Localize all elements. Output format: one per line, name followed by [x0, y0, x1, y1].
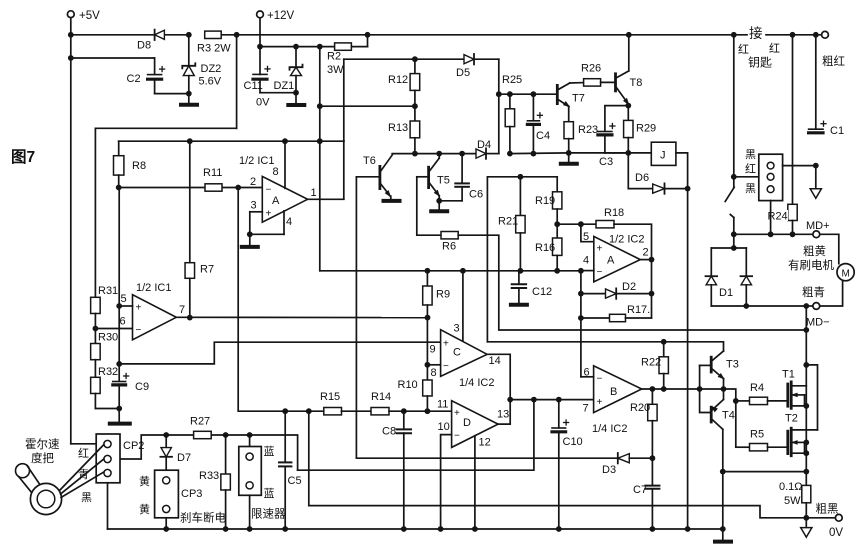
svg-text:2: 2 — [643, 247, 649, 259]
wire D output feedback drop — [298, 400, 534, 471]
connector CP1 — [759, 154, 783, 200]
op-amp U2A (1/2 IC2) — [583, 231, 649, 282]
wire R26 to T8 base — [601, 81, 616, 83]
terminal MD+ — [806, 220, 830, 238]
diode D6 — [628, 153, 690, 194]
svg-text:R27: R27 — [190, 416, 210, 428]
terminal MD- — [806, 303, 830, 329]
wire T3 collector feed — [487, 342, 723, 351]
svg-text:C12: C12 — [532, 286, 552, 298]
capacitor C5 — [279, 411, 302, 529]
svg-text:T7: T7 — [572, 93, 585, 105]
wire mid ground bus — [320, 268, 584, 274]
svg-text:7: 7 — [179, 304, 185, 316]
svg-text:12: 12 — [479, 437, 491, 449]
wire R18 feedback — [614, 224, 654, 318]
svg-text:粗青: 粗青 — [802, 286, 825, 299]
svg-text:黄: 黄 — [139, 502, 150, 516]
ground IC1A — [242, 234, 258, 247]
svg-text:0V: 0V — [829, 527, 843, 539]
op-amp U1B (1/2 IC1) — [120, 282, 186, 340]
svg-text:C: C — [453, 347, 461, 359]
wire drive top line — [344, 56, 464, 62]
wire op-amp A output — [308, 198, 344, 200]
svg-text:刹车断电: 刹车断电 — [180, 511, 226, 525]
wire R3 output jog — [95, 35, 236, 298]
svg-text:R25: R25 — [502, 74, 522, 86]
transistor T4 — [709, 399, 735, 429]
svg-text:9: 9 — [430, 344, 436, 356]
terminal +12V — [257, 10, 295, 22]
svg-text:MD+: MD+ — [806, 220, 830, 232]
svg-text:R21: R21 — [498, 216, 518, 228]
svg-text:R32: R32 — [98, 366, 118, 378]
resistor R33 — [199, 435, 230, 529]
diode D8 — [137, 30, 164, 52]
resistor R6 — [441, 232, 458, 253]
svg-text:C10: C10 — [563, 436, 583, 448]
wire key to connector — [734, 176, 759, 178]
label thick cyan — [802, 286, 825, 299]
svg-text:3W: 3W — [327, 64, 344, 76]
svg-text:R2: R2 — [327, 51, 341, 63]
svg-text:C3: C3 — [599, 156, 613, 168]
svg-text:R17.: R17. — [627, 304, 650, 316]
svg-text:粗黄: 粗黄 — [803, 244, 826, 258]
svg-text:R9: R9 — [436, 289, 450, 301]
wire pin5 node — [557, 221, 594, 241]
svg-text:R6: R6 — [442, 241, 456, 253]
wire op-amp A2 output — [640, 259, 651, 261]
wire C11 bottom — [260, 79, 299, 95]
resistor R27 — [190, 416, 211, 439]
wire speed feedback line — [356, 457, 617, 459]
resistor R25 — [502, 74, 522, 157]
wire collector line T6-T5 — [392, 151, 476, 157]
wire MD+ to motor — [821, 234, 839, 263]
wire throttle leads — [60, 445, 104, 498]
resistor R14 — [371, 391, 391, 415]
wire ground line segment — [510, 152, 628, 155]
svg-text:图7: 图7 — [11, 148, 35, 166]
svg-text:红: 红 — [745, 163, 756, 176]
ground below C12 — [511, 303, 527, 307]
wire 0V sense line — [309, 411, 807, 518]
svg-text:CP2: CP2 — [123, 440, 144, 452]
label blue 1 — [264, 445, 275, 458]
svg-text:D2: D2 — [622, 281, 636, 293]
svg-text:粗红: 粗红 — [822, 55, 845, 68]
svg-text:R31: R31 — [98, 285, 118, 297]
ground T5 — [431, 201, 447, 212]
resistor R21 — [498, 177, 525, 271]
svg-text:D8: D8 — [137, 40, 151, 52]
label blue 2 — [264, 487, 275, 500]
wire pin12 ground stub — [474, 436, 476, 529]
wire D5 output vertical — [474, 59, 502, 153]
svg-text:蓝: 蓝 — [264, 445, 275, 458]
wire pin4 stub — [250, 211, 284, 234]
wire bottom ground rail — [108, 526, 726, 532]
wire R4 to T1 gate — [768, 400, 788, 402]
svg-text:3: 3 — [454, 323, 460, 335]
svg-text:蓝: 蓝 — [264, 487, 275, 500]
svg-text:R19: R19 — [535, 195, 555, 207]
svg-text:钥匙: 钥匙 — [748, 56, 772, 70]
svg-text:粗黑: 粗黑 — [816, 503, 839, 516]
resistor R23 — [564, 106, 598, 155]
resistor R18 — [581, 207, 624, 228]
wire C and D output join — [487, 354, 513, 424]
wire T5 emitter node — [436, 198, 462, 204]
wire pin6 jog — [581, 376, 594, 378]
diode D2 — [581, 281, 652, 299]
op-amp U2D (1/4 IC2) — [437, 399, 509, 449]
label connector wires — [745, 148, 756, 195]
svg-text:MD−: MD− — [806, 317, 830, 329]
wire input network line — [238, 188, 324, 415]
wire pin3 input — [247, 212, 262, 237]
wire base line T7 — [499, 91, 558, 97]
wire T3-T4 base tie — [700, 365, 712, 412]
capacitor C2 — [127, 67, 165, 85]
wire op-amp A output riser — [343, 59, 345, 199]
wire pin8 power stub — [284, 141, 286, 188]
capacitor C3 — [598, 124, 628, 169]
svg-text:1: 1 — [311, 187, 317, 199]
transistor T3 — [711, 351, 739, 382]
diode D3 — [602, 453, 652, 476]
switch key — [725, 35, 736, 235]
resistor R26 — [581, 63, 601, 87]
wire +5V vertical rail — [68, 18, 74, 443]
svg-text:R29: R29 — [636, 123, 656, 135]
svg-text:CP3: CP3 — [181, 488, 202, 500]
svg-text:T4: T4 — [722, 410, 735, 422]
svg-text:C2: C2 — [127, 73, 141, 85]
resistor R12 — [388, 59, 420, 106]
label cyan wire — [78, 468, 89, 481]
ground below R23 — [561, 153, 577, 164]
wire R24 drop — [792, 35, 794, 205]
earth below shunt — [801, 518, 812, 537]
svg-text:4: 4 — [583, 255, 589, 267]
label red wire — [78, 447, 89, 460]
svg-text:红: 红 — [738, 43, 749, 56]
hall throttle lever — [16, 464, 41, 494]
wire throttle line — [120, 432, 298, 470]
svg-text:0V: 0V — [256, 97, 270, 109]
wire +12V drop — [257, 19, 263, 75]
svg-text:C5: C5 — [288, 475, 302, 487]
wire T8 emitter node — [605, 103, 631, 132]
svg-text:+12V: +12V — [267, 10, 295, 22]
svg-text:+: + — [136, 303, 142, 314]
wire 12V distribution line — [260, 44, 335, 50]
svg-text:14: 14 — [489, 355, 501, 367]
wire top supply rail — [71, 32, 821, 38]
svg-text:+: + — [266, 209, 272, 220]
wire MD- line — [711, 303, 812, 309]
svg-text:C8: C8 — [382, 426, 396, 438]
transistor T6 — [356, 155, 393, 199]
svg-text:1/2 IC1: 1/2 IC1 — [136, 282, 171, 294]
svg-text:−: − — [597, 374, 603, 385]
svg-text:T8: T8 — [630, 77, 643, 89]
resistor R13 — [388, 106, 420, 153]
resistor R29 — [624, 120, 657, 155]
svg-text:1/2 IC1: 1/2 IC1 — [239, 155, 274, 167]
svg-text:D4: D4 — [477, 139, 491, 151]
svg-text:R22: R22 — [641, 357, 661, 369]
svg-text:C7: C7 — [633, 484, 647, 496]
diode D1b — [719, 248, 752, 306]
wire pin10 ground stub — [441, 435, 452, 529]
wire T5 base to R6 — [417, 177, 441, 235]
wire pin6 line — [93, 326, 133, 332]
svg-text:DZ2: DZ2 — [201, 63, 222, 75]
svg-text:R13: R13 — [388, 122, 408, 134]
wire divider top line — [487, 174, 557, 342]
wire 5V to CP2 — [71, 443, 96, 445]
svg-text:6: 6 — [120, 316, 126, 328]
svg-text:C9: C9 — [135, 381, 149, 393]
resistor R17 — [581, 304, 652, 322]
wire connector to earth — [783, 163, 819, 169]
svg-text:T6: T6 — [363, 155, 376, 167]
svg-text:−: − — [443, 361, 449, 372]
svg-text:R23: R23 — [578, 124, 598, 136]
earth top right — [810, 166, 821, 199]
wire C9 bottom to ground — [110, 385, 130, 424]
svg-text:10: 10 — [438, 421, 450, 433]
wire emitter junction — [724, 379, 739, 448]
label figure 7 — [11, 148, 35, 166]
resistor R16 — [535, 221, 562, 270]
wire pin2 input line — [116, 185, 263, 191]
svg-text:−: − — [266, 185, 272, 196]
svg-text:D7: D7 — [177, 452, 191, 464]
wire MD- main vertical — [803, 306, 809, 485]
label quarter IC2 — [459, 377, 494, 389]
resistor R7 — [185, 141, 214, 317]
wire C2 top feed — [71, 58, 155, 74]
diode D7 — [160, 435, 191, 470]
resistor R4 — [736, 382, 768, 405]
diode D4 — [476, 139, 499, 159]
resistor R10 — [398, 365, 433, 414]
label yellow 1 — [139, 474, 150, 488]
wire T1 bypass to T2 drain — [806, 365, 817, 430]
svg-text:0.1Ω: 0.1Ω — [779, 481, 803, 493]
svg-text:M: M — [842, 269, 850, 280]
label thick yellow — [803, 244, 826, 258]
svg-text:R7: R7 — [200, 264, 214, 276]
label thick black — [816, 503, 839, 516]
svg-text:T2: T2 — [785, 413, 798, 425]
terminal 0V — [806, 514, 843, 539]
capacitor C7 — [633, 458, 659, 529]
terminal battery positive — [822, 31, 845, 68]
diode D1a — [706, 248, 718, 306]
transistor T5 — [417, 154, 450, 201]
resistor R8 — [114, 141, 147, 187]
resistor R11 — [203, 167, 222, 191]
svg-text:R14: R14 — [371, 391, 391, 403]
wire D1 bridge top — [711, 234, 746, 251]
wire connector bottom stub — [770, 201, 772, 235]
resistor R32 — [91, 366, 119, 409]
svg-text:R33: R33 — [199, 470, 219, 482]
wire R5 to T2 gate — [768, 446, 788, 448]
capacitor C4 — [527, 94, 550, 156]
wire hall divider vertical — [118, 188, 120, 382]
resistor R24 — [767, 204, 797, 234]
svg-text:B: B — [610, 386, 617, 398]
diode D5 — [456, 54, 474, 79]
svg-text:R10: R10 — [398, 379, 418, 391]
svg-text:C1: C1 — [830, 125, 844, 137]
wire CP3 bottom — [165, 518, 167, 529]
label hall throttle — [25, 437, 60, 465]
svg-text:+: + — [443, 339, 449, 350]
resistor R5 — [736, 429, 768, 451]
label speed limiter — [251, 508, 286, 521]
wire T7 collector to R26 — [570, 82, 584, 84]
svg-text:黄: 黄 — [139, 474, 150, 488]
svg-text:R8: R8 — [132, 160, 146, 172]
svg-text:C6: C6 — [469, 189, 483, 201]
label brushed motor — [788, 258, 834, 272]
svg-text:红: 红 — [78, 447, 89, 460]
svg-text:1/4 IC2: 1/4 IC2 — [459, 377, 494, 389]
svg-text:度把: 度把 — [31, 451, 54, 465]
capacitor C10 — [552, 400, 583, 529]
svg-text:+: + — [597, 244, 603, 255]
mosfet T2 — [785, 413, 818, 456]
label key connect — [738, 25, 780, 70]
wire R32 bottom to C9 node — [95, 406, 122, 412]
svg-text:R18: R18 — [604, 207, 624, 219]
connector CP3 — [155, 470, 203, 518]
svg-text:1/4 IC2: 1/4 IC2 — [592, 423, 627, 435]
resistor R30 — [91, 329, 119, 378]
wire R13 tap — [320, 103, 418, 109]
svg-text:3: 3 — [251, 200, 257, 212]
svg-text:霍尔速: 霍尔速 — [25, 437, 60, 451]
wire R15-R14 — [342, 410, 372, 412]
svg-text:5W: 5W — [784, 495, 801, 507]
svg-text:8: 8 — [431, 367, 437, 379]
svg-text:黑: 黑 — [745, 182, 756, 195]
svg-text:5.6V: 5.6V — [199, 76, 222, 88]
zener DZ1 — [274, 47, 303, 93]
wire MD+ line — [731, 231, 812, 237]
svg-text:有刷电机: 有刷电机 — [788, 258, 834, 272]
resistor shunt 0.1ohm — [779, 481, 811, 521]
svg-text:黑: 黑 — [81, 491, 92, 504]
wire J output vertical — [676, 153, 688, 529]
resistor R22 — [641, 339, 668, 389]
zener DZ2 — [182, 35, 221, 94]
label yellow 2 — [139, 502, 150, 516]
wire T4 collector to ground — [720, 429, 726, 529]
capacitor C8 — [382, 411, 411, 529]
resistor R3 — [197, 31, 231, 54]
capacitor C11 — [244, 66, 271, 108]
svg-text:R16: R16 — [535, 242, 555, 254]
wire source return — [723, 471, 807, 473]
svg-text:限速器: 限速器 — [251, 508, 286, 521]
transistor T7 — [557, 83, 585, 109]
wire T6 base long vertical — [355, 177, 357, 458]
svg-text:T1: T1 — [782, 369, 795, 381]
ground below DZ2 — [181, 94, 197, 105]
svg-text:A: A — [607, 255, 615, 267]
capacitor C1 — [809, 35, 844, 137]
svg-text:−: − — [597, 267, 603, 278]
svg-text:R11: R11 — [203, 167, 222, 179]
wire summing line to B input — [510, 397, 593, 403]
wire op-amp B output line — [176, 315, 430, 321]
capacitor C9 — [113, 374, 149, 394]
svg-text:+: + — [597, 397, 603, 408]
capacitor C6 — [455, 154, 483, 201]
svg-text:D1: D1 — [719, 287, 733, 299]
svg-text:2: 2 — [250, 176, 256, 188]
mosfet T1 — [782, 369, 806, 409]
wire pin11 line — [389, 408, 452, 414]
op-amp U2C (1/4 IC2) — [430, 323, 501, 380]
svg-text:R3 2W: R3 2W — [197, 43, 231, 55]
svg-text:D5: D5 — [456, 67, 470, 79]
transistor T8 — [616, 35, 643, 107]
wire CP2 pin3 ground — [107, 483, 109, 529]
label black wire — [81, 491, 92, 504]
svg-text:R4: R4 — [750, 382, 764, 394]
terminal +5V — [67, 10, 100, 22]
wire B output line — [642, 386, 727, 392]
resistor R2 — [327, 43, 351, 76]
resistor R15 — [320, 391, 342, 415]
svg-text:黑: 黑 — [745, 148, 756, 161]
hall throttle body — [30, 483, 61, 514]
op-amp U2B (1/4 IC2) — [583, 366, 642, 435]
svg-text:红: 红 — [769, 42, 780, 55]
capacitor C12 — [512, 271, 552, 304]
svg-text:4: 4 — [286, 216, 292, 228]
svg-text:D3: D3 — [602, 464, 616, 476]
wire pin5 input — [116, 303, 132, 309]
svg-text:R30: R30 — [98, 332, 118, 344]
svg-text:+5V: +5V — [79, 10, 100, 22]
resistor R20 — [630, 389, 657, 461]
wire IC2A inverting vertical — [578, 271, 594, 377]
svg-text:DZ1: DZ1 — [274, 80, 295, 92]
svg-text:接: 接 — [749, 25, 763, 41]
resistor R9 — [423, 271, 450, 365]
svg-text:+: + — [454, 408, 460, 419]
svg-text:A: A — [272, 195, 280, 207]
svg-text:T3: T3 — [726, 359, 739, 371]
ground T6 emitter — [384, 196, 400, 201]
svg-text:8: 8 — [273, 166, 279, 178]
motor M — [837, 264, 854, 281]
svg-text:R20: R20 — [630, 402, 650, 414]
svg-text:−: − — [136, 325, 142, 336]
wire R2 to rail — [351, 35, 367, 47]
svg-text:D: D — [463, 417, 471, 429]
